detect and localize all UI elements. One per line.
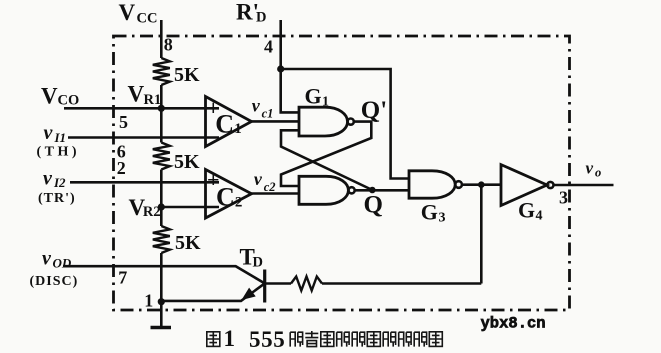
svg-text:v: v <box>43 167 53 189</box>
svg-text:1: 1 <box>322 95 329 110</box>
svg-text:D: D <box>253 254 263 270</box>
svg-text:5K: 5K <box>174 151 200 173</box>
svg-text:D: D <box>256 10 266 26</box>
svg-text:1: 1 <box>144 291 153 311</box>
svg-text:R1: R1 <box>144 92 162 108</box>
svg-text:5: 5 <box>119 112 128 132</box>
svg-text:v: v <box>586 159 594 178</box>
svg-text:OD: OD <box>53 256 72 271</box>
svg-text:G: G <box>421 199 438 224</box>
svg-text:1: 1 <box>234 121 242 137</box>
svg-text:v: v <box>254 169 263 189</box>
svg-text:1: 1 <box>224 326 236 351</box>
svg-text:C: C <box>216 183 235 212</box>
svg-text:(TR'): (TR') <box>38 191 76 206</box>
svg-text:V: V <box>41 84 58 109</box>
svg-text:R2: R2 <box>143 204 161 220</box>
svg-text:G: G <box>518 197 535 222</box>
svg-text:3: 3 <box>439 210 446 225</box>
svg-text:I1: I1 <box>54 130 67 145</box>
svg-text:o: o <box>595 165 601 179</box>
svg-text:c2: c2 <box>264 180 276 194</box>
svg-text:I2: I2 <box>53 175 66 190</box>
svg-text:2: 2 <box>235 194 243 210</box>
svg-text:C: C <box>215 109 234 138</box>
svg-text:(TH): (TH) <box>37 144 81 159</box>
svg-text:Q': Q' <box>361 97 387 124</box>
svg-text:ybx8.cn: ybx8.cn <box>481 315 546 333</box>
svg-text:7: 7 <box>118 267 127 287</box>
svg-text:Q: Q <box>364 192 383 219</box>
svg-text:5K: 5K <box>175 232 201 254</box>
svg-text:8: 8 <box>164 35 173 55</box>
svg-text:v: v <box>42 248 52 270</box>
svg-text:CO: CO <box>58 93 80 109</box>
svg-text:v: v <box>44 122 54 144</box>
svg-text:555: 555 <box>249 327 285 352</box>
svg-text:(DISC): (DISC) <box>30 274 79 289</box>
svg-text:V: V <box>119 0 136 25</box>
svg-text:CC: CC <box>137 11 158 27</box>
svg-text:v: v <box>252 96 261 116</box>
svg-text:V: V <box>128 82 145 107</box>
svg-text:4: 4 <box>536 208 543 223</box>
svg-text:3: 3 <box>559 188 568 208</box>
svg-text:5K: 5K <box>174 64 200 86</box>
svg-text:4: 4 <box>264 37 273 57</box>
svg-text:c1: c1 <box>262 107 274 121</box>
svg-text:2: 2 <box>117 158 126 178</box>
svg-text:G: G <box>305 83 322 108</box>
